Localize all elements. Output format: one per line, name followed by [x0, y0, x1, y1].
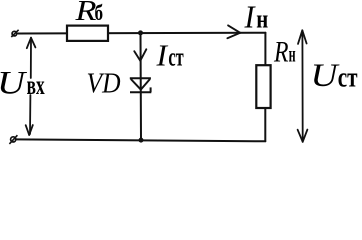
label Rн [273, 35, 295, 68]
wire middle branch [140, 33, 143, 140]
resistor R1 Rб [67, 26, 108, 41]
wire right branch lower [264, 108, 266, 142]
current arrow Iн [227, 25, 240, 38]
wire top rail [18, 32, 265, 35]
resistor R2 Rн [256, 65, 270, 108]
terminal input top [11, 30, 18, 37]
svg-text:R: R [74, 0, 97, 27]
label Iст [155, 38, 183, 73]
svg-text:R: R [273, 35, 288, 68]
svg-text:ст: ст [168, 43, 183, 72]
label Rб [74, 0, 103, 27]
svg-text:I: I [244, 0, 256, 35]
svg-text:I: I [155, 38, 168, 73]
svg-text:вх: вх [27, 70, 45, 100]
voltage arrow Uвх (double-headed) [26, 38, 36, 135]
svg-text:VD: VD [87, 68, 121, 100]
voltage arrow Uст (double-headed) [298, 30, 308, 142]
current arrow Iст [134, 49, 146, 60]
svg-text:U: U [311, 58, 340, 94]
zener diode VD [130, 78, 152, 92]
svg-text:н: н [289, 41, 296, 66]
node B bottom junction [139, 138, 144, 143]
svg-text:б: б [95, 0, 104, 25]
terminal input bottom [9, 135, 17, 144]
svg-text:ст: ст [338, 62, 358, 94]
svg-text:н: н [256, 5, 268, 34]
label Uвх [0, 66, 45, 102]
node A top junction [138, 30, 143, 35]
wire right branch upper [264, 33, 266, 66]
label Iн [244, 0, 269, 35]
label Uст [311, 58, 358, 94]
svg-text:U: U [0, 66, 28, 102]
wire bottom rail [16, 139, 265, 141]
